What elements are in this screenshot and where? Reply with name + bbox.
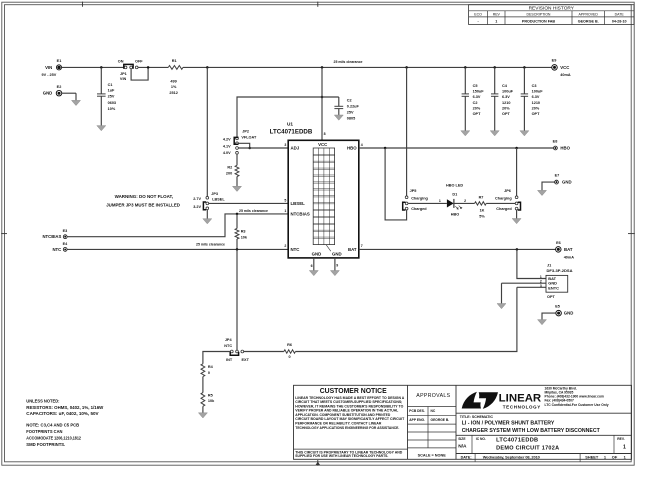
svg-text:1uF: 1uF [108, 88, 115, 92]
resistor R4 0 [201, 364, 214, 377]
ground below JP6 [512, 219, 521, 224]
svg-text:APP ENG.: APP ENG. [409, 418, 425, 422]
svg-text:9V - 25V: 9V - 25V [42, 73, 57, 77]
svg-text:VIN: VIN [120, 77, 127, 81]
svg-text:IC NO.: IC NO. [476, 437, 486, 441]
resistor R2 200 [226, 165, 239, 176]
svg-text:4.0V: 4.0V [223, 151, 231, 155]
svg-text:SMD FOOTPRINTS.: SMD FOOTPRINTS. [26, 442, 65, 447]
svg-text:6.3V: 6.3V [473, 95, 481, 99]
svg-text:GEORGE B.: GEORGE B. [578, 19, 599, 23]
svg-text:3: 3 [284, 143, 286, 147]
svg-text:APPROVED: APPROVED [578, 13, 598, 17]
svg-text:ON: ON [118, 60, 124, 64]
svg-text:4.1V: 4.1V [223, 144, 231, 148]
svg-text:C5: C5 [473, 84, 478, 88]
wire JP6 charged to ground [516, 210, 518, 218]
svg-text:TITLE: SCHEMATIC: TITLE: SCHEMATIC [460, 415, 494, 419]
svg-text:25 mils clearance: 25 mils clearance [196, 243, 225, 247]
junction U1 VCC tap [321, 66, 324, 69]
resistor R6 0 [284, 343, 296, 359]
svg-text:20%: 20% [502, 106, 510, 110]
terminal E6 BAT [556, 241, 575, 260]
wire JP4 EXT to R6 [244, 351, 284, 353]
svg-text:2512: 2512 [169, 91, 177, 95]
svg-text:20%: 20% [473, 106, 481, 110]
ground below C5 [461, 131, 470, 136]
svg-text:2: 2 [284, 244, 286, 248]
svg-text:LBSEL: LBSEL [291, 201, 306, 206]
svg-text:DATE:: DATE: [461, 455, 472, 459]
wire JP1 common loop [131, 68, 148, 80]
ground below R5 [198, 413, 207, 418]
svg-text:2.7V: 2.7V [193, 197, 201, 201]
ground below C2 [334, 115, 343, 120]
svg-text:NTC: NTC [291, 247, 301, 252]
connector J1 DF3-3P-2DSA [502, 249, 573, 299]
svg-text:ADJ: ADJ [291, 146, 300, 151]
svg-text:100uF: 100uF [532, 90, 544, 94]
svg-text:EXT: EXT [242, 358, 250, 362]
svg-text:U1: U1 [287, 121, 293, 126]
svg-text:NTC: NTC [52, 247, 61, 252]
wire U1 GND pin 6 [313, 258, 315, 271]
svg-text:REV: REV [493, 13, 501, 17]
svg-text:R5: R5 [208, 393, 213, 397]
svg-text:D1: D1 [452, 193, 457, 197]
junction ADJ [248, 147, 251, 150]
junction JP3 tap [206, 66, 209, 69]
wire rail to JP3 [206, 67, 208, 196]
svg-text:0603: 0603 [108, 101, 116, 105]
svg-text:JUMPER JP3 MUST BE INSTALLED: JUMPER JP3 MUST BE INSTALLED [106, 203, 180, 208]
capacitor C3 100uF [521, 67, 544, 130]
svg-text:NTCBIAS: NTCBIAS [291, 211, 310, 216]
jumper JP5 charging/charged [403, 189, 429, 211]
svg-text:JP2: JP2 [242, 129, 249, 133]
svg-text:8: 8 [324, 132, 326, 136]
wire E3 to NTCBIAS pin 1 [67, 214, 288, 237]
svg-text:HBO LED: HBO LED [446, 183, 463, 187]
terminal E5 GND [555, 305, 573, 316]
junction C4 tap [493, 66, 496, 69]
svg-text:DATE: DATE [615, 13, 625, 17]
title section [456, 413, 631, 434]
svg-text:499: 499 [170, 79, 176, 83]
svg-text:ENTC: ENTC [548, 286, 559, 291]
svg-text:2: 2 [464, 199, 466, 203]
svg-text:1%: 1% [171, 85, 177, 89]
svg-text:WARNING: DO NOT FLOAT,: WARNING: DO NOT FLOAT, [115, 194, 173, 199]
svg-text:INT: INT [226, 358, 233, 362]
ground at E2 [72, 100, 81, 105]
svg-text:TECHNOLOGY APPLICATIONS ENGINE: TECHNOLOGY APPLICATIONS ENGINEERING FOR … [295, 426, 399, 430]
resistor R3 10k [235, 213, 248, 250]
junction BAT J1 [516, 248, 519, 251]
svg-text:20%: 20% [532, 106, 540, 110]
wire U1 VCC pin 8 to rail [321, 67, 323, 140]
svg-text:GND: GND [332, 252, 342, 257]
svg-text:BAT: BAT [348, 247, 357, 252]
svg-text:C2: C2 [347, 98, 352, 102]
svg-text:OPT: OPT [502, 112, 510, 116]
svg-text:PCB DES.: PCB DES. [409, 409, 425, 413]
wire R7 to JP6 [486, 202, 515, 204]
svg-text:200: 200 [226, 172, 232, 176]
ground below C1 [97, 126, 106, 131]
svg-text:0: 0 [289, 355, 291, 359]
ground below J1 [497, 304, 506, 309]
wire R5 to ground [202, 406, 204, 413]
svg-text:LI - ION / POLYMER SHUNT BATTE: LI - ION / POLYMER SHUNT BATTERY [462, 421, 555, 427]
ground at E7 [538, 190, 547, 195]
svg-text:1: 1 [540, 275, 542, 279]
svg-text:ECO: ECO [474, 13, 482, 17]
junction JP5 tap [405, 66, 408, 69]
svg-text:0: 0 [208, 371, 210, 375]
svg-text:JP4: JP4 [225, 338, 233, 342]
svg-text:4: 4 [361, 143, 363, 147]
svg-text:1: 1 [495, 19, 497, 23]
jumper JP2 VFLOAT [223, 129, 257, 154]
terminal E1 VIN [42, 59, 62, 77]
svg-text:Fax: (408)434-0507: Fax: (408)434-0507 [545, 398, 574, 402]
ground at E5 [538, 320, 547, 325]
svg-text:1: 1 [439, 199, 441, 203]
svg-text:Charging: Charging [411, 197, 428, 201]
svg-text:6: 6 [311, 264, 313, 268]
wire JP1 OFF to R1 [138, 66, 168, 68]
svg-text:150uF: 150uF [473, 90, 485, 94]
svg-text:Charging: Charging [495, 197, 512, 201]
resistor R5 10k [201, 393, 215, 407]
ground below JP3 [203, 219, 212, 224]
wire JP2 bottom to R2 [236, 154, 238, 165]
terminal E8 HBO [553, 139, 571, 150]
svg-text:0805: 0805 [347, 116, 355, 120]
svg-text:7: 7 [361, 244, 363, 248]
warning note text [106, 194, 180, 208]
svg-text:10%: 10% [108, 107, 116, 111]
svg-text:04-28-10: 04-28-10 [612, 19, 627, 23]
wire JP3 to ground [206, 210, 208, 219]
ground below C4 [490, 131, 499, 136]
svg-text:LINEAR: LINEAR [499, 393, 542, 405]
svg-text:R3: R3 [241, 229, 246, 233]
svg-text:10k: 10k [208, 399, 215, 403]
wire HBO rail to JP6 charging [516, 148, 518, 196]
svg-text:1: 1 [623, 445, 626, 451]
wire VCC branch to JP2 [237, 97, 322, 137]
svg-text:SCALE = NONE: SCALE = NONE [418, 454, 447, 458]
svg-text:OF: OF [612, 454, 618, 459]
svg-text:DESCRIPTION: DESCRIPTION [527, 13, 551, 17]
svg-text:CUSTOMER NOTICE: CUSTOMER NOTICE [320, 388, 387, 395]
svg-text:DF3-3P-2DSA: DF3-3P-2DSA [547, 268, 573, 273]
svg-text:1210: 1210 [502, 101, 510, 105]
svg-text:CAPACITORS: uF, 0402, 10%, 5: CAPACITORS: uF, 0402, 10%, 50V [26, 411, 99, 416]
svg-text:E9: E9 [552, 59, 557, 63]
wire U1 GND pin 9 [334, 258, 336, 271]
svg-text:E2: E2 [57, 85, 62, 89]
svg-text:RESISTORS: OHMS, 0402, 1%, 1/1: RESISTORS: OHMS, 0402, 1%, 1/16W [26, 405, 103, 410]
wire R1 to E9 VCC rail [183, 66, 552, 68]
svg-text:Wednesday, September 08, 2010: Wednesday, September 08, 2010 [483, 454, 540, 459]
svg-text:HBO: HBO [560, 146, 570, 151]
svg-text:40mA: 40mA [560, 73, 571, 77]
svg-text:VCC: VCC [560, 65, 569, 70]
svg-text:VFLOAT: VFLOAT [241, 136, 257, 140]
svg-text:JP1: JP1 [120, 72, 127, 76]
jumper JP6 charging/charged [495, 189, 520, 211]
junction NTC [236, 248, 239, 251]
svg-text:E8: E8 [553, 139, 558, 143]
svg-text:E1: E1 [57, 59, 62, 63]
svg-text:SHEET: SHEET [585, 454, 599, 459]
svg-text:1210: 1210 [532, 101, 540, 105]
svg-text:E5: E5 [555, 305, 560, 309]
svg-text:APPROVALS: APPROVALS [416, 393, 450, 399]
svg-text:JP5: JP5 [410, 189, 417, 193]
wire JP4 INT to R4 [203, 352, 231, 364]
svg-text:SUPPLIED FOR USE WITH LINEAR T: SUPPLIED FOR USE WITH LINEAR TECHNOLOGY … [295, 454, 388, 458]
svg-text:JP3: JP3 [211, 192, 218, 196]
terminal E7 GND [555, 174, 572, 185]
svg-text:40mA: 40mA [564, 255, 575, 259]
approvals box [408, 393, 457, 458]
capacitor C1 1uF [97, 67, 116, 125]
svg-text:TECHNOLOGY: TECHNOLOGY [503, 405, 541, 410]
svg-text:OPT: OPT [473, 112, 481, 116]
wire BAT U1 pin 7 to E6 [359, 248, 556, 250]
wire ADJ to U1 pin 3 [238, 147, 288, 149]
svg-text:GND: GND [43, 91, 53, 96]
svg-text:C1: C1 [108, 83, 113, 87]
svg-text:6.3V: 6.3V [532, 95, 540, 99]
jumper JP1 VIN (ON/OFF) [118, 60, 144, 82]
junction C5 tap [464, 66, 467, 69]
svg-text:6.3V: 6.3V [502, 95, 510, 99]
svg-text:VCC: VCC [318, 142, 328, 147]
wire R2 to ground [236, 177, 238, 187]
svg-text:JP6: JP6 [504, 189, 511, 193]
svg-text:E7: E7 [555, 174, 560, 178]
svg-text:C2: C2 [473, 101, 478, 105]
svg-text:PRODUCTION FAB: PRODUCTION FAB [522, 19, 556, 23]
svg-text:GEORGE B.: GEORGE B. [431, 418, 450, 422]
jumper JP4 NTC INT/EXT [224, 338, 249, 362]
svg-text:OFF: OFF [135, 60, 143, 64]
svg-text:LTC4071EDDB: LTC4071EDDB [270, 129, 313, 135]
svg-text:9: 9 [336, 264, 338, 268]
svg-text:J1: J1 [547, 263, 551, 267]
resistor R7 1K [475, 195, 487, 218]
junction HBO charged route [384, 147, 387, 150]
ground below R2 [233, 186, 242, 191]
size ic rev row [456, 435, 631, 453]
svg-text:CHARGER SYSTEM WITH LOW BATTER: CHARGER SYSTEM WITH LOW BATTERY DISCONNE… [462, 428, 601, 434]
svg-text:DEMO CIRCUIT 1702A: DEMO CIRCUIT 1702A [496, 445, 559, 451]
notes unless noted [26, 398, 103, 447]
svg-text:E6: E6 [556, 241, 561, 245]
capacitor C4 100uF [491, 67, 514, 130]
svg-text:LBSEL: LBSEL [212, 197, 225, 201]
svg-text:NTCBIAS: NTCBIAS [43, 234, 62, 239]
wire NTC to JP4 [236, 249, 238, 350]
svg-text:Charged: Charged [496, 207, 512, 211]
junction C1 tap [100, 66, 103, 69]
wire LBSEL to U1 pin 5 [209, 202, 288, 204]
svg-text:LTC Confidential-For Customer: LTC Confidential-For Customer Use Only [545, 403, 609, 407]
svg-text:GND: GND [564, 311, 574, 316]
svg-text:BAT: BAT [564, 247, 573, 252]
svg-text:R1: R1 [172, 59, 177, 63]
junction VCC branch [321, 96, 324, 99]
svg-text:25 mils clearance: 25 mils clearance [334, 60, 363, 64]
svg-text:1K: 1K [480, 208, 485, 212]
svg-text:3: 3 [540, 284, 542, 288]
svg-text:5: 5 [284, 199, 286, 203]
wire E7 to ground [542, 182, 555, 190]
svg-text:OPT: OPT [547, 295, 555, 299]
wire J1 GND to ground [501, 283, 503, 303]
wire VCC rail to JP5 charging [406, 67, 408, 196]
ground below C3 [520, 131, 529, 136]
svg-text:R2: R2 [227, 166, 232, 170]
wire HBO to JP5 charged [385, 148, 407, 220]
svg-text:SIZE: SIZE [458, 437, 466, 441]
svg-text:1: 1 [284, 209, 286, 213]
svg-text:E3: E3 [63, 229, 68, 233]
wire JP5 common to D1 [408, 202, 447, 204]
svg-text:0.22uF: 0.22uF [347, 104, 360, 108]
wire branch to C2 [322, 96, 339, 98]
svg-text:UNLESS NOTED:: UNLESS NOTED: [26, 398, 59, 403]
svg-text:4.2V: 4.2V [223, 138, 231, 142]
wire R6 to J1 ENTC [295, 287, 517, 351]
terminal E9 VCC [552, 59, 571, 77]
svg-text:LTC4071EDDB: LTC4071EDDB [496, 437, 538, 443]
terminal E2 GND [43, 85, 62, 96]
svg-text:REVISION HISTORY: REVISION HISTORY [529, 5, 575, 11]
svg-text:NTC: NTC [224, 344, 232, 348]
wire R4 to R5 [202, 377, 204, 393]
svg-text:Charged: Charged [411, 207, 427, 211]
ground U1 pin 9 [330, 271, 339, 276]
resistor R1 499 [168, 59, 183, 95]
linear technology logo [462, 386, 609, 409]
wire VIN rail E1 to JP1 [62, 66, 125, 68]
svg-text:NOTE: C3,C4 AND C5 PCB: NOTE: C3,C4 AND C5 PCB [26, 422, 79, 427]
svg-text:R7: R7 [479, 195, 484, 199]
svg-text:N/A: N/A [458, 443, 467, 449]
svg-text:25V: 25V [108, 95, 115, 99]
capacitor C5 150uF [462, 67, 485, 130]
svg-text:VIN: VIN [45, 65, 52, 70]
svg-text:R6: R6 [287, 343, 292, 347]
junction JP1 loop [147, 66, 150, 69]
revision history table [469, 5, 634, 25]
terminal E3 NTCBIAS [43, 229, 68, 239]
svg-text:GND: GND [562, 180, 572, 185]
svg-text:3.2V: 3.2V [193, 205, 201, 209]
wire E4 to NTC pin 2 [67, 248, 288, 250]
op-amp U1 LTC4071EDDB [270, 121, 359, 258]
wire E2 to ground [62, 92, 76, 94]
svg-text:GND: GND [312, 252, 322, 257]
svg-text:C3: C3 [532, 84, 537, 88]
title block [294, 385, 632, 459]
svg-text:FOOTPRINTS CAN: FOOTPRINTS CAN [26, 429, 62, 434]
svg-text:10k: 10k [241, 235, 248, 239]
wire E5 to ground [542, 313, 556, 320]
junction HBO JP6 [515, 147, 518, 150]
svg-text:25 mils clearance: 25 mils clearance [239, 209, 268, 213]
terminal E4 NTC [52, 242, 68, 252]
capacitor C2 0.22uF [334, 97, 359, 120]
ground U1 pin 6 [309, 271, 318, 276]
jumper JP3 LBSEL [193, 192, 225, 210]
svg-text:REV.: REV. [617, 437, 625, 441]
wire D1 to R7 [454, 202, 475, 204]
wire HBO U1 pin 4 to E8 [359, 147, 553, 149]
svg-text:NC: NC [431, 409, 436, 413]
svg-text:HBO: HBO [347, 146, 357, 151]
date sheet row [456, 454, 631, 462]
svg-text:ACCOMODATE 1206,1210,1812: ACCOMODATE 1206,1210,1812 [26, 435, 81, 440]
svg-text:25V: 25V [347, 110, 354, 114]
junction C3 tap [523, 66, 526, 69]
LED D1 HBO LED [446, 183, 463, 216]
svg-text:OPT: OPT [532, 112, 540, 116]
svg-text:HBO: HBO [451, 213, 459, 217]
svg-text:5%: 5% [479, 215, 485, 219]
customer notice [294, 388, 408, 458]
wire JP2 common to ADJ line [238, 143, 249, 148]
svg-text:100uF: 100uF [502, 90, 514, 94]
